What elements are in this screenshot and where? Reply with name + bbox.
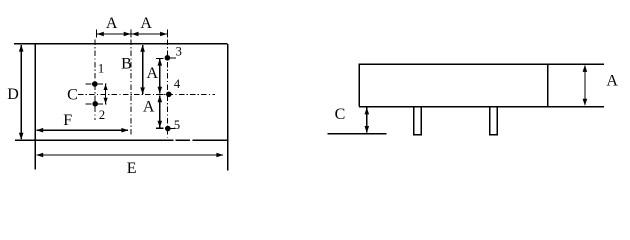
- small dimension C between points 1 and 2: [105, 84, 107, 103]
- centerline through points 1,2: [94, 40, 96, 121]
- dimension C line (leg height): [366, 108, 368, 133]
- plate right edge (extended down for E): [227, 44, 229, 171]
- svg-text:D: D: [7, 86, 19, 103]
- centerline through points 3,4,5: [167, 40, 169, 138]
- dimension E line: [36, 154, 223, 156]
- plate bottom edge (three segments with small gaps): [15, 139, 173, 141]
- point 2: [92, 101, 98, 107]
- top dimension lines A A: [97, 33, 131, 35]
- svg-text:2: 2: [99, 108, 105, 122]
- horizontal centerline: [78, 94, 215, 96]
- svg-text:5: 5: [174, 118, 180, 132]
- dimension D line: [20, 45, 22, 139]
- svg-text:E: E: [127, 160, 137, 177]
- plate left edge (extended down for E): [34, 44, 36, 170]
- svg-text:A: A: [143, 98, 155, 115]
- point 5: [165, 126, 171, 132]
- leader to label 5: [170, 128, 175, 130]
- svg-text:3: 3: [176, 45, 182, 59]
- svg-text:1: 1: [98, 62, 104, 76]
- svg-text:A: A: [106, 15, 118, 32]
- top dimension extension ticks: [95, 30, 97, 38]
- svg-text:F: F: [63, 112, 72, 129]
- dimension B line: [142, 45, 144, 94]
- dimension A line (side view height): [584, 66, 586, 106]
- dimension F line: [36, 129, 128, 131]
- svg-text:C: C: [67, 87, 78, 104]
- side view leg 1: [414, 107, 422, 135]
- side view leg 2: [490, 107, 498, 135]
- svg-text:4: 4: [174, 77, 181, 91]
- dimension A (4 to 5): [159, 95, 161, 127]
- baseline under legs: [327, 133, 386, 135]
- svg-text:A: A: [606, 73, 618, 90]
- svg-text:A: A: [140, 15, 152, 32]
- leader to label 3: [170, 57, 176, 59]
- point 4: [166, 92, 172, 98]
- point 1: [92, 81, 98, 87]
- svg-text:B: B: [121, 55, 132, 72]
- short centerline through point 2: [86, 103, 107, 105]
- plate top edge (with left extension): [14, 43, 228, 45]
- svg-text:C: C: [335, 106, 346, 123]
- svg-text:A: A: [147, 65, 159, 82]
- point 3: [165, 55, 171, 61]
- dimension A (3 to 4): [156, 58, 164, 60]
- short centerline through point 1: [86, 83, 107, 85]
- side view plate outline: [359, 63, 604, 65]
- middle vertical centerline: [130, 40, 132, 138]
